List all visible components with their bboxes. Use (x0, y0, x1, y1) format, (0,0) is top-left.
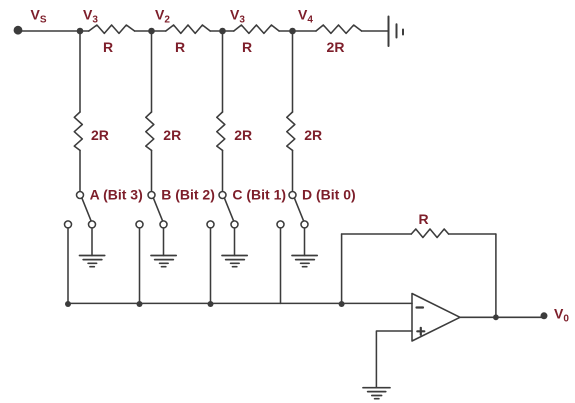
wire 2R to ground (362, 30, 389, 32)
wire node V3 down (79, 31, 81, 112)
wire R to node V3b (210, 30, 234, 32)
junction bus at C (208, 301, 214, 307)
switch C pole (219, 192, 226, 199)
wire node V2 down (151, 31, 153, 112)
op-amp plus sign (417, 328, 424, 335)
wire switch C to ground (234, 228, 236, 255)
svg-text:2R: 2R (304, 127, 322, 143)
node V3b (bit C column) (219, 28, 226, 35)
wire switch D to bus (280, 228, 282, 303)
wire feedback right (495, 234, 497, 317)
op-amp U1 (412, 294, 460, 342)
svg-text:V3: V3 (83, 7, 98, 26)
switch D throw (ground) (301, 221, 308, 228)
svg-text:2R: 2R (91, 127, 109, 143)
switch C lever (225, 198, 234, 220)
resistor R (V3b-V4) (234, 25, 279, 33)
resistor R (feedback) (411, 229, 448, 238)
op-amp minus sign (417, 306, 424, 308)
resistor 2R (bit B) (146, 112, 154, 150)
junction output feedback (493, 314, 499, 320)
wire switch B to ground (163, 228, 165, 255)
svg-text:R: R (242, 39, 252, 55)
wire 2R to switch C (222, 150, 224, 191)
ground (bit C) (222, 256, 247, 267)
svg-text:V0: V0 (554, 306, 569, 325)
wire summing bus (68, 302, 412, 304)
wire feedback top right (449, 233, 496, 235)
resistor 2R (bit A) (74, 112, 82, 150)
wire feedback top left (342, 233, 412, 235)
wire 2R to switch D (292, 150, 294, 191)
switch D lever (295, 198, 304, 220)
ground (bit A) (80, 256, 105, 267)
ground (op-amp) (363, 388, 390, 399)
switch A throw (bus) (65, 221, 72, 228)
switch C throw (ground) (231, 221, 238, 228)
switch B throw (bus) (136, 221, 143, 228)
svg-text:2R: 2R (163, 127, 181, 143)
switch C throw (bus) (207, 221, 214, 228)
junction bus feedback (339, 301, 345, 307)
ground (bit D) (292, 256, 317, 267)
switch B lever (154, 198, 163, 220)
wire switch B to bus (139, 228, 141, 303)
wire switch A to bus (67, 228, 69, 303)
node V4 (bit D column) (289, 28, 296, 35)
ground (bit B) (151, 256, 176, 267)
wire switch C to bus (210, 228, 212, 303)
wire noninverting input (376, 331, 412, 388)
resistor 2R (bit C) (217, 112, 225, 150)
svg-text:V2: V2 (155, 7, 170, 26)
resistor 2R (bit D) (287, 112, 295, 150)
junction bus at B (137, 301, 143, 307)
ground (right, sideways) (389, 17, 404, 47)
svg-text:V4: V4 (298, 7, 313, 26)
terminal Vs (14, 26, 23, 35)
svg-text:V3: V3 (230, 7, 245, 26)
svg-text:D (Bit 0): D (Bit 0) (302, 187, 356, 203)
wire switch A to ground (91, 228, 93, 255)
switch A lever (82, 198, 91, 220)
svg-text:A (Bit 3): A (Bit 3) (90, 187, 143, 203)
resistor R (V3-V2) (89, 25, 135, 33)
wire output (460, 316, 544, 318)
svg-text:R: R (175, 39, 185, 55)
svg-text:R: R (103, 39, 113, 55)
svg-text:C (Bit 1): C (Bit 1) (232, 187, 286, 203)
wire R to node V2 (135, 30, 166, 32)
wire feedback left (341, 234, 343, 303)
junction bus at A (65, 301, 71, 307)
svg-text:2R: 2R (234, 127, 252, 143)
svg-text:R: R (418, 211, 428, 227)
switch B pole (148, 192, 155, 199)
wire Vs to node V3 (18, 30, 89, 32)
node V3 (bit A column) (77, 28, 84, 35)
switch A pole (77, 192, 84, 199)
switch D pole (289, 192, 296, 199)
switch A throw (ground) (89, 221, 96, 228)
resistor R (V2-V3) (166, 25, 210, 33)
wire switch D to ground (304, 228, 306, 255)
terminal V0 (541, 312, 548, 319)
switch D throw (bus) (277, 221, 284, 228)
wire node V3b down (222, 31, 224, 112)
svg-text:2R: 2R (327, 39, 345, 55)
wire 2R to switch A (79, 150, 81, 191)
node V2 (bit B column) (148, 28, 155, 35)
resistor 2R (termination) (316, 25, 362, 33)
svg-text:B (Bit 2): B (Bit 2) (161, 187, 215, 203)
wire 2R to switch B (151, 150, 153, 191)
wire node V4 down (292, 31, 294, 112)
switch B throw (ground) (160, 221, 167, 228)
wire R to node V4 (279, 30, 316, 32)
svg-text:VS: VS (31, 7, 47, 26)
